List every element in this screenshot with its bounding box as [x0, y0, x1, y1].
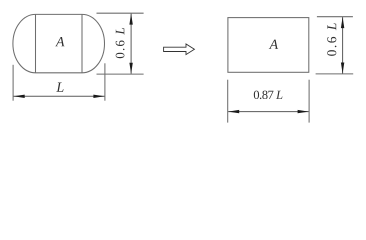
node right arrowhead 0.87L [298, 110, 309, 113]
wire right extension line for L [104, 63, 106, 100]
node 0.87 L label [254, 91, 283, 99]
node down arrowhead left 0.6L [129, 63, 132, 74]
node block arrow (transform symbol) [164, 44, 195, 55]
stadium outline (left figure) [13, 14, 105, 72]
wire bottom extension line right figure [316, 73, 354, 75]
node 0.6 L label right (rotated) [327, 23, 336, 56]
node A label right [269, 40, 278, 49]
node up arrowhead right 0.6L [341, 17, 344, 28]
node left arrowhead 0.87L [228, 110, 239, 113]
wire horizontal dimension line 0.87L [228, 111, 309, 113]
wire vertical dimension line right figure [342, 17, 344, 73]
wire horizontal dimension line L [14, 95, 105, 97]
wire right chord of stadium [81, 14, 83, 72]
wire left chord of stadium [35, 14, 37, 72]
node A label left [55, 37, 64, 46]
wire top extension line right figure [317, 16, 353, 18]
node L label [56, 83, 63, 92]
wire vertical dimension line left figure [130, 14, 132, 74]
node down arrowhead right 0.6L [341, 63, 344, 74]
wire top extension line left figure [97, 12, 144, 14]
node 0.6 L label left (rotated) [116, 28, 125, 58]
node up arrowhead left 0.6L [129, 14, 132, 25]
wire left extension line for L [12, 65, 14, 101]
wire bottom extension line left figure [97, 73, 144, 75]
node right arrowhead L [93, 95, 104, 98]
rectangle outline (right figure) [228, 18, 309, 73]
wire right extension line for 0.87L [308, 80, 310, 123]
node left arrowhead L [14, 95, 25, 98]
wire left extension line for 0.87L [227, 80, 229, 123]
